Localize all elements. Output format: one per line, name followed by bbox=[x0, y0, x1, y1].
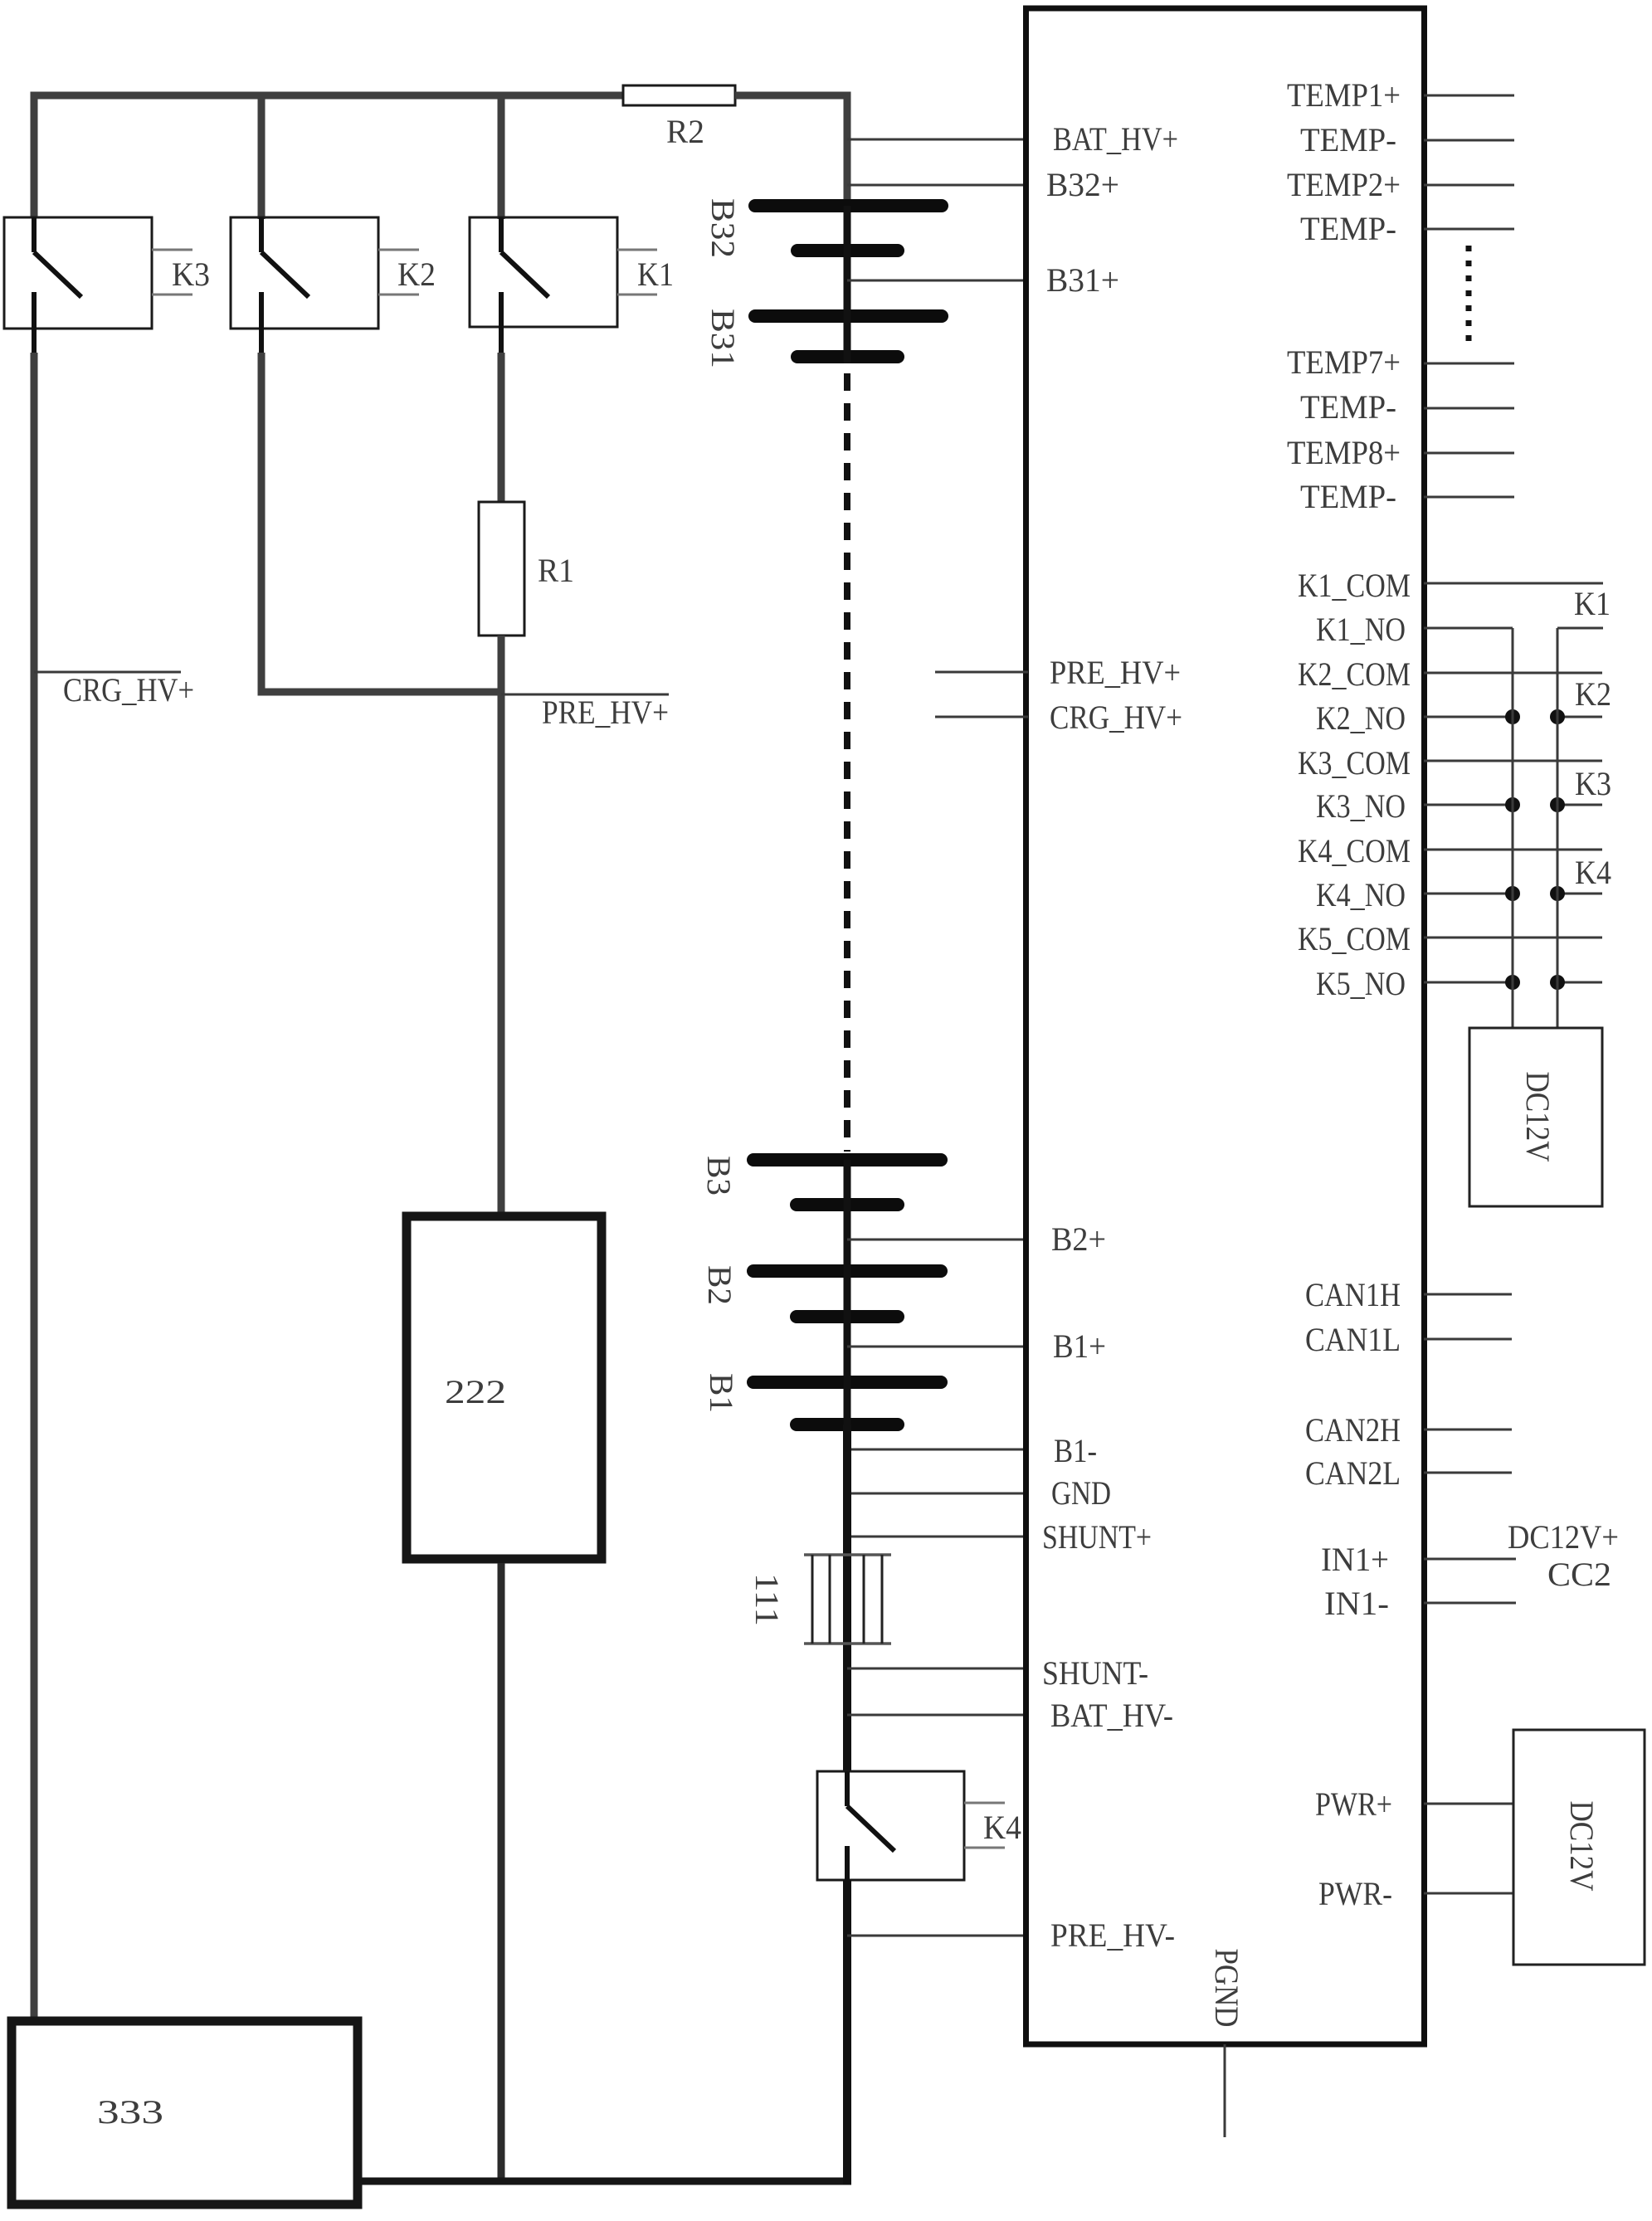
power supply DC12V (controller) bbox=[1513, 1730, 1645, 1965]
pin CAN1L bbox=[1305, 1321, 1512, 1358]
pin IN1+ bbox=[1321, 1541, 1516, 1578]
svg-text:K1_COM: K1_COM bbox=[1298, 567, 1411, 604]
wire relay coil bus right bbox=[1557, 628, 1559, 1030]
svg-text:PRE_HV+: PRE_HV+ bbox=[1050, 654, 1181, 691]
svg-text:IN1-: IN1- bbox=[1324, 1585, 1389, 1622]
svg-text:B1+: B1+ bbox=[1053, 1327, 1106, 1365]
svg-text:TEMP8+: TEMP8+ bbox=[1287, 434, 1401, 471]
svg-text:PRE_HV-: PRE_HV- bbox=[1050, 1917, 1175, 1954]
relay K3 bbox=[4, 217, 210, 357]
wire B1+ pin bbox=[847, 1346, 1028, 1348]
svg-text:K2: K2 bbox=[1575, 675, 1611, 713]
pin PGND stub bbox=[1224, 2044, 1226, 2137]
svg-text:B31: B31 bbox=[704, 309, 742, 368]
battery cell B3 bbox=[700, 1156, 941, 1205]
svg-text:CAN2L: CAN2L bbox=[1305, 1454, 1401, 1492]
pin PWR+ bbox=[1315, 1785, 1513, 1823]
svg-text:B31+: B31+ bbox=[1046, 261, 1119, 299]
pin K1_NO bbox=[1316, 611, 1603, 648]
svg-text:K2_COM: K2_COM bbox=[1298, 655, 1411, 693]
wire BAT_HV+ pin bbox=[847, 139, 1028, 141]
svg-text:CAN2H: CAN2H bbox=[1305, 1411, 1401, 1449]
pin K4_COM bbox=[1298, 832, 1602, 869]
pin PRE_HV+ stub bbox=[935, 671, 1028, 674]
battery cell B1 bbox=[703, 1373, 941, 1425]
pin K2_COM bbox=[1298, 655, 1602, 693]
svg-text:DC12V: DC12V bbox=[1519, 1072, 1557, 1162]
pin TEMP8+ bbox=[1287, 434, 1514, 471]
pin K3_NO bbox=[1316, 787, 1602, 825]
svg-text:K2: K2 bbox=[397, 256, 436, 293]
wire B32+ pin bbox=[847, 184, 1028, 187]
wire B1- pin bbox=[847, 1449, 1028, 1451]
wire K1 to R1 bbox=[498, 353, 505, 504]
pin CAN1H bbox=[1305, 1276, 1512, 1313]
svg-text:K5_COM: K5_COM bbox=[1298, 920, 1411, 957]
pin TEMP- (2) bbox=[1300, 210, 1514, 247]
wire battery top connector bbox=[844, 206, 851, 363]
svg-text:K3: K3 bbox=[172, 256, 210, 293]
box 333 bbox=[12, 2021, 358, 2204]
pin K4_NO bbox=[1316, 876, 1602, 913]
wire B31+ pin bbox=[847, 280, 1028, 282]
svg-text:K1: K1 bbox=[1574, 585, 1611, 622]
svg-text:TEMP-: TEMP- bbox=[1300, 478, 1396, 515]
svg-text:SHUNT-: SHUNT- bbox=[1042, 1654, 1148, 1692]
pin K5_COM bbox=[1298, 920, 1602, 957]
resistor R2 bbox=[623, 85, 735, 150]
svg-text:K4: K4 bbox=[1575, 854, 1611, 891]
svg-text:GND: GND bbox=[1051, 1474, 1111, 1512]
svg-text:B32+: B32+ bbox=[1046, 166, 1119, 203]
wire PRE_HV- pin bbox=[847, 1935, 1028, 1937]
svg-text:BAT_HV+: BAT_HV+ bbox=[1053, 120, 1178, 158]
node PRE_HV+ tap bbox=[501, 694, 669, 731]
battery cell B2 bbox=[701, 1265, 941, 1317]
svg-text:CAN1L: CAN1L bbox=[1305, 1321, 1401, 1358]
svg-text:K3_COM: K3_COM bbox=[1298, 744, 1411, 782]
svg-text:PGND: PGND bbox=[1208, 1949, 1245, 2028]
wire R2 to battery positive feed bbox=[735, 95, 847, 209]
battery cell B31 bbox=[704, 309, 942, 368]
svg-text:PRE_HV+: PRE_HV+ bbox=[542, 694, 669, 731]
wire SHUNT+ pin bbox=[847, 1536, 1028, 1538]
pin CAN2L bbox=[1305, 1454, 1512, 1492]
relay K4 bbox=[817, 1771, 1021, 1880]
svg-text:CC2: CC2 bbox=[1547, 1556, 1611, 1593]
svg-text:K4_COM: K4_COM bbox=[1298, 832, 1411, 869]
svg-text:B2+: B2+ bbox=[1051, 1220, 1106, 1258]
svg-text:CRG_HV+: CRG_HV+ bbox=[63, 671, 194, 709]
wire relay coil bus left bbox=[1512, 628, 1514, 1030]
svg-text:K5_NO: K5_NO bbox=[1316, 965, 1406, 1002]
svg-text:R2: R2 bbox=[666, 113, 704, 150]
svg-text:DC12V: DC12V bbox=[1563, 1801, 1601, 1892]
pin TEMP- (8) bbox=[1300, 478, 1514, 515]
svg-text:R1: R1 bbox=[538, 552, 574, 589]
power supply DC12V (relay coils) bbox=[1469, 1028, 1602, 1206]
pin CRG_HV+ stub bbox=[935, 716, 1028, 718]
wire K1 branch vertical from bus bbox=[498, 95, 505, 219]
wire K2 branch vertical from bus bbox=[258, 95, 266, 219]
pin TEMP1+ bbox=[1287, 76, 1514, 114]
wire dashed battery continuation bbox=[844, 373, 850, 1152]
pin CAN2H bbox=[1305, 1411, 1512, 1449]
svg-text:SHUNT+: SHUNT+ bbox=[1042, 1518, 1152, 1556]
wire K4 bottom bbox=[843, 1880, 851, 2184]
svg-text:B1: B1 bbox=[703, 1373, 740, 1413]
svg-text:333: 333 bbox=[97, 2093, 163, 2131]
svg-text:K4_NO: K4_NO bbox=[1316, 876, 1406, 913]
relay K1 bbox=[470, 217, 674, 357]
svg-text:TEMP-: TEMP- bbox=[1300, 121, 1396, 158]
pin TEMP7+ bbox=[1287, 343, 1514, 381]
svg-text:B3: B3 bbox=[700, 1156, 738, 1196]
wire B2+ pin bbox=[847, 1239, 1028, 1241]
wire K2 to precharge junction bbox=[261, 353, 498, 692]
pin K3_COM bbox=[1298, 744, 1602, 782]
svg-text:CAN1H: CAN1H bbox=[1305, 1276, 1401, 1313]
svg-text:BAT_HV-: BAT_HV- bbox=[1050, 1697, 1173, 1734]
svg-text:B1-: B1- bbox=[1054, 1432, 1097, 1469]
pin IN1- bbox=[1324, 1585, 1516, 1622]
wire battery lower connector bbox=[844, 1160, 851, 1429]
svg-text:K3_NO: K3_NO bbox=[1316, 787, 1406, 825]
box 222 bbox=[407, 1216, 602, 1559]
svg-text:B2: B2 bbox=[701, 1265, 738, 1305]
svg-text:TEMP-: TEMP- bbox=[1300, 388, 1396, 426]
pin K1_COM bbox=[1298, 567, 1603, 604]
dotted continuation temp channels bbox=[1466, 246, 1472, 341]
BMS controller box bbox=[1026, 8, 1425, 2044]
svg-text:TEMP-: TEMP- bbox=[1300, 210, 1396, 247]
svg-text:222: 222 bbox=[445, 1373, 506, 1410]
wire top bus from K3 branch to R2 bbox=[34, 95, 623, 217]
pin K5_NO bbox=[1316, 965, 1602, 1002]
svg-text:TEMP2+: TEMP2+ bbox=[1287, 166, 1401, 203]
pin PWR- bbox=[1318, 1875, 1513, 1912]
svg-text:K3: K3 bbox=[1575, 765, 1611, 802]
battery cell B32 bbox=[704, 198, 942, 258]
wire K3 to 333 box bbox=[31, 353, 38, 2018]
svg-text:K4: K4 bbox=[983, 1809, 1021, 1846]
wire battery negative chain bbox=[843, 1425, 851, 1775]
svg-text:TEMP7+: TEMP7+ bbox=[1287, 343, 1401, 381]
svg-text:K2_NO: K2_NO bbox=[1316, 699, 1406, 737]
svg-text:K1: K1 bbox=[637, 256, 674, 293]
svg-text:B32: B32 bbox=[704, 198, 742, 258]
relay K2 bbox=[231, 217, 436, 357]
shunt 111 bbox=[748, 1555, 891, 1644]
wire bottom return bbox=[358, 2178, 851, 2185]
wire R1 bottom to 222 box bbox=[498, 636, 505, 1214]
pin TEMP2+ bbox=[1287, 166, 1514, 203]
wire SHUNT- pin bbox=[847, 1668, 1028, 1670]
svg-text:IN1+: IN1+ bbox=[1321, 1541, 1389, 1578]
wire BAT_HV- pin bbox=[847, 1714, 1028, 1717]
node CRG_HV+ tap bbox=[34, 671, 194, 709]
pin TEMP- (7) bbox=[1300, 388, 1514, 426]
svg-text:111: 111 bbox=[748, 1573, 786, 1626]
svg-text:PWR+: PWR+ bbox=[1315, 1785, 1392, 1823]
resistor R1 bbox=[479, 502, 574, 636]
svg-text:CRG_HV+: CRG_HV+ bbox=[1050, 699, 1182, 736]
svg-text:K1_NO: K1_NO bbox=[1316, 611, 1406, 648]
svg-text:TEMP1+: TEMP1+ bbox=[1287, 76, 1401, 114]
wire GND pin bbox=[847, 1493, 1028, 1495]
wire 222 bottom bbox=[498, 1563, 505, 2181]
pin TEMP- (1) bbox=[1300, 121, 1514, 158]
pin K2_NO bbox=[1316, 699, 1602, 737]
svg-text:DC12V+: DC12V+ bbox=[1508, 1518, 1619, 1556]
svg-text:PWR-: PWR- bbox=[1318, 1875, 1392, 1912]
